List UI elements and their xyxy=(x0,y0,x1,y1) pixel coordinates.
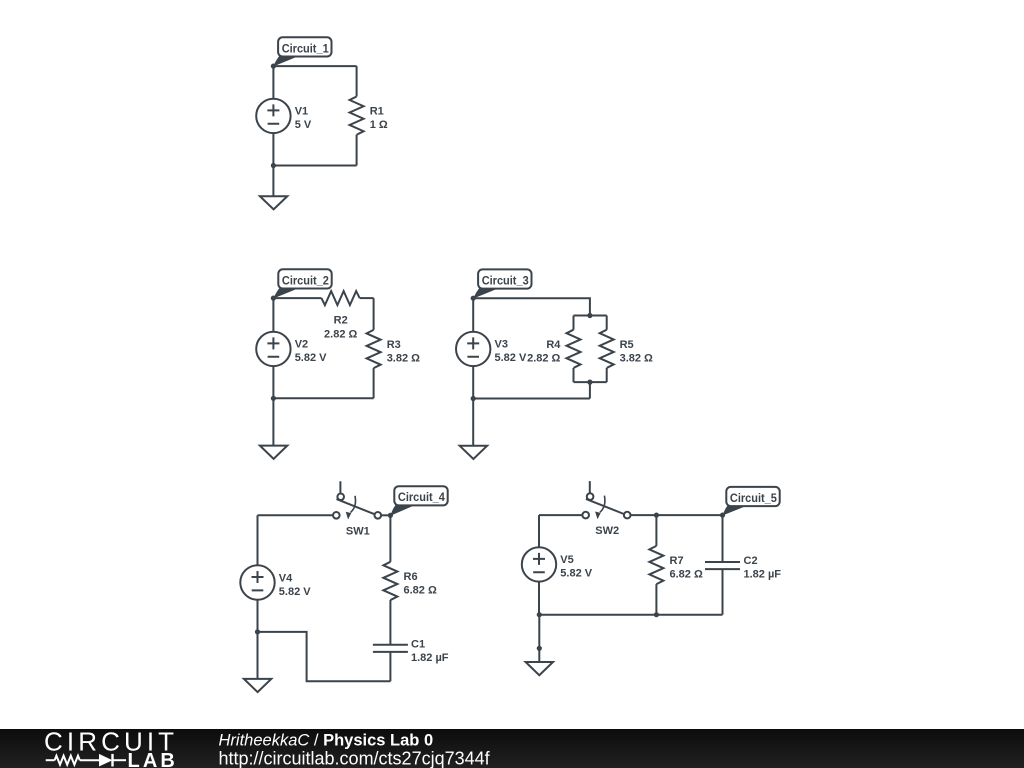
wire: R7 leads xyxy=(655,515,657,615)
wire: circuit 5 ground lead xyxy=(538,615,540,662)
svg-text:V1: V1 xyxy=(295,106,308,118)
node: circuit 1 top-left junction xyxy=(271,64,276,69)
voltage source V3 xyxy=(456,332,527,366)
wire: parallel pair to bottom rail xyxy=(589,382,591,398)
wire: circuit 5 bottom xyxy=(539,614,723,616)
wire: circuit 4 bottom return (step) xyxy=(258,632,391,681)
svg-text:R7: R7 xyxy=(670,555,684,567)
wire: circuit 3 parallel top bar xyxy=(574,315,607,317)
svg-text:SW2: SW2 xyxy=(595,525,619,537)
wire: circuit 4 left (corner to V4) xyxy=(257,515,259,565)
svg-text:1.82 µF: 1.82 µF xyxy=(744,569,782,581)
svg-text:C2: C2 xyxy=(744,555,758,567)
svg-text:R4: R4 xyxy=(546,339,561,351)
wire: circuit 1 right (R1 leads) xyxy=(356,66,358,165)
wire: node down to C2 xyxy=(722,515,724,562)
wire: R6 to C1 xyxy=(389,600,391,645)
wire: circuit 3 parallel bottom bar xyxy=(574,381,607,383)
wire: circuit 1 ground lead xyxy=(272,166,274,197)
node: parallel top junction xyxy=(587,313,592,318)
wire: circuit 2 right (R3 leads) xyxy=(373,298,375,398)
wire: circuit 1 bottom xyxy=(273,165,356,167)
resistor R7 xyxy=(649,546,703,584)
resistor R1 xyxy=(350,97,388,135)
node: circuit 5 right node xyxy=(720,513,725,518)
wire: circuit 1 top xyxy=(273,65,356,67)
logo schematic: wire after diode xyxy=(113,759,127,761)
wire: circuit 5 left (corner to V5) xyxy=(538,515,540,547)
svg-text:5.82 V: 5.82 V xyxy=(279,586,311,598)
logo schematic: resistor zigzag xyxy=(55,756,80,765)
capacitor C1 xyxy=(373,638,449,664)
svg-text:6.82 Ω: 6.82 Ω xyxy=(404,585,437,597)
svg-text:V4: V4 xyxy=(279,572,293,584)
logo schematic: diode xyxy=(99,754,113,767)
voltage source V4 xyxy=(240,565,311,599)
switch SW1 xyxy=(333,481,381,537)
svg-text:3.82 Ω: 3.82 Ω xyxy=(387,352,420,364)
wire: R5 leads xyxy=(606,316,608,383)
svg-text:5 V: 5 V xyxy=(295,119,312,131)
wire: circuit 2 top right segment xyxy=(360,297,374,299)
voltage source V5 xyxy=(522,547,593,581)
svg-text:Circuit_5: Circuit_5 xyxy=(730,491,777,505)
wire: circuit 4 ground lead xyxy=(257,632,259,679)
node: circuit 2 top-left junction xyxy=(271,296,276,301)
voltage source V1 xyxy=(256,99,312,133)
svg-text:R6: R6 xyxy=(404,571,418,583)
wire: switch to node xyxy=(381,514,390,516)
node: circuit 1 bottom junction xyxy=(271,163,276,168)
node: circuit 4 switch output junction xyxy=(388,513,393,518)
svg-text:V3: V3 xyxy=(495,339,508,351)
svg-text:V5: V5 xyxy=(560,554,573,566)
svg-text:HritheekkaC / Physics Lab 0: HritheekkaC / Physics Lab 0 xyxy=(219,731,434,749)
node: circuit 5 R7 top junction xyxy=(654,513,659,518)
svg-text:R2: R2 xyxy=(334,315,348,327)
resistor R5 xyxy=(600,330,653,368)
svg-text:R3: R3 xyxy=(387,339,401,351)
label callout Circuit_3 xyxy=(473,269,531,298)
svg-text:3.82 Ω: 3.82 Ω xyxy=(620,352,653,364)
wire: V4 bottom to junction xyxy=(257,600,259,632)
svg-text:2.82 Ω: 2.82 Ω xyxy=(527,352,560,364)
node: circuit 4 bottom-left junction xyxy=(255,629,260,634)
ground GND2 xyxy=(260,446,287,459)
svg-text:1.82 µF: 1.82 µF xyxy=(411,652,449,664)
ground GND3 xyxy=(460,446,487,459)
svg-text:Circuit_1: Circuit_1 xyxy=(282,41,329,55)
wire: C1 to bottom rail xyxy=(389,652,391,681)
wire: circuit 3 top xyxy=(473,298,590,315)
node: parallel bottom junction xyxy=(587,380,592,385)
resistor R3 xyxy=(367,330,421,368)
wire: circuit 5 top right xyxy=(631,514,723,516)
wire: R4 leads xyxy=(573,316,575,383)
label callout Circuit_4 xyxy=(390,486,447,516)
wire: V3 bottom to bottom rail xyxy=(472,366,474,398)
wire: circuit 3 left (node to V3) xyxy=(472,298,474,332)
wire: circuit 2 ground lead xyxy=(272,398,274,445)
svg-text:SW1: SW1 xyxy=(346,525,370,537)
wire: circuit 2 bottom xyxy=(273,397,373,399)
svg-text:5.82 V: 5.82 V xyxy=(295,352,327,364)
ground GND4 xyxy=(244,679,271,692)
wire: V2 bottom to bottom rail xyxy=(272,366,274,398)
wire: circuit 3 bottom xyxy=(473,398,590,400)
wire: circuit 3 ground lead xyxy=(472,399,474,446)
svg-text:Circuit_2: Circuit_2 xyxy=(282,273,329,287)
svg-text:LAB: LAB xyxy=(128,750,178,768)
svg-text:C1: C1 xyxy=(411,638,425,650)
ground GND1 xyxy=(260,196,287,209)
wire: circuit 2 left (node to V2) xyxy=(272,298,274,332)
voltage source V2 xyxy=(256,332,327,366)
wire: circuit 2 top left segment xyxy=(273,297,321,299)
node: circuit 3 top-left junction xyxy=(471,296,476,301)
svg-text:Circuit_3: Circuit_3 xyxy=(482,273,529,287)
node: circuit 5 bottom-left junction xyxy=(537,612,542,617)
node: circuit 5 ground node xyxy=(537,646,542,651)
svg-text:http://circuitlab.com/cts27cjq: http://circuitlab.com/cts27cjq7344f xyxy=(219,749,491,768)
capacitor C2 xyxy=(705,555,781,581)
resistor R4 xyxy=(527,330,580,368)
node: circuit 2 bottom junction xyxy=(271,396,276,401)
svg-text:5.82 V: 5.82 V xyxy=(560,568,592,580)
wire: V5 bottom to bottom rail xyxy=(538,582,540,615)
wire: circuit 5 top left xyxy=(539,514,582,516)
node: circuit 3 bottom junction xyxy=(471,396,476,401)
label callout Circuit_1 xyxy=(273,37,331,66)
svg-text:V2: V2 xyxy=(295,339,308,351)
wire: node down to R6 xyxy=(389,515,391,561)
switch SW2 xyxy=(582,481,630,537)
svg-text:2.82 Ω: 2.82 Ω xyxy=(324,328,357,340)
resistor R2 xyxy=(321,291,359,340)
node: circuit 5 R7 bottom junction xyxy=(654,612,659,617)
svg-text:5.82 V: 5.82 V xyxy=(495,352,527,364)
wire: circuit 4 top left xyxy=(258,514,334,516)
label callout Circuit_2 xyxy=(273,269,331,298)
logo schematic: wire xyxy=(46,759,55,761)
ground GND5 xyxy=(526,662,553,675)
svg-text:Circuit_4: Circuit_4 xyxy=(398,490,445,504)
svg-text:1 Ω: 1 Ω xyxy=(370,119,388,131)
svg-text:R1: R1 xyxy=(370,105,384,117)
label callout Circuit_5 xyxy=(723,487,780,516)
wire: V1 bottom to bottom rail xyxy=(272,133,274,165)
svg-text:R5: R5 xyxy=(620,339,634,351)
wire: circuit 1 left (node to V1 top) xyxy=(272,66,274,99)
svg-text:6.82 Ω: 6.82 Ω xyxy=(670,568,703,580)
wire: C2 to bottom rail xyxy=(722,569,724,615)
logo schematic: wire to diode xyxy=(80,759,99,761)
resistor R6 xyxy=(383,562,437,600)
